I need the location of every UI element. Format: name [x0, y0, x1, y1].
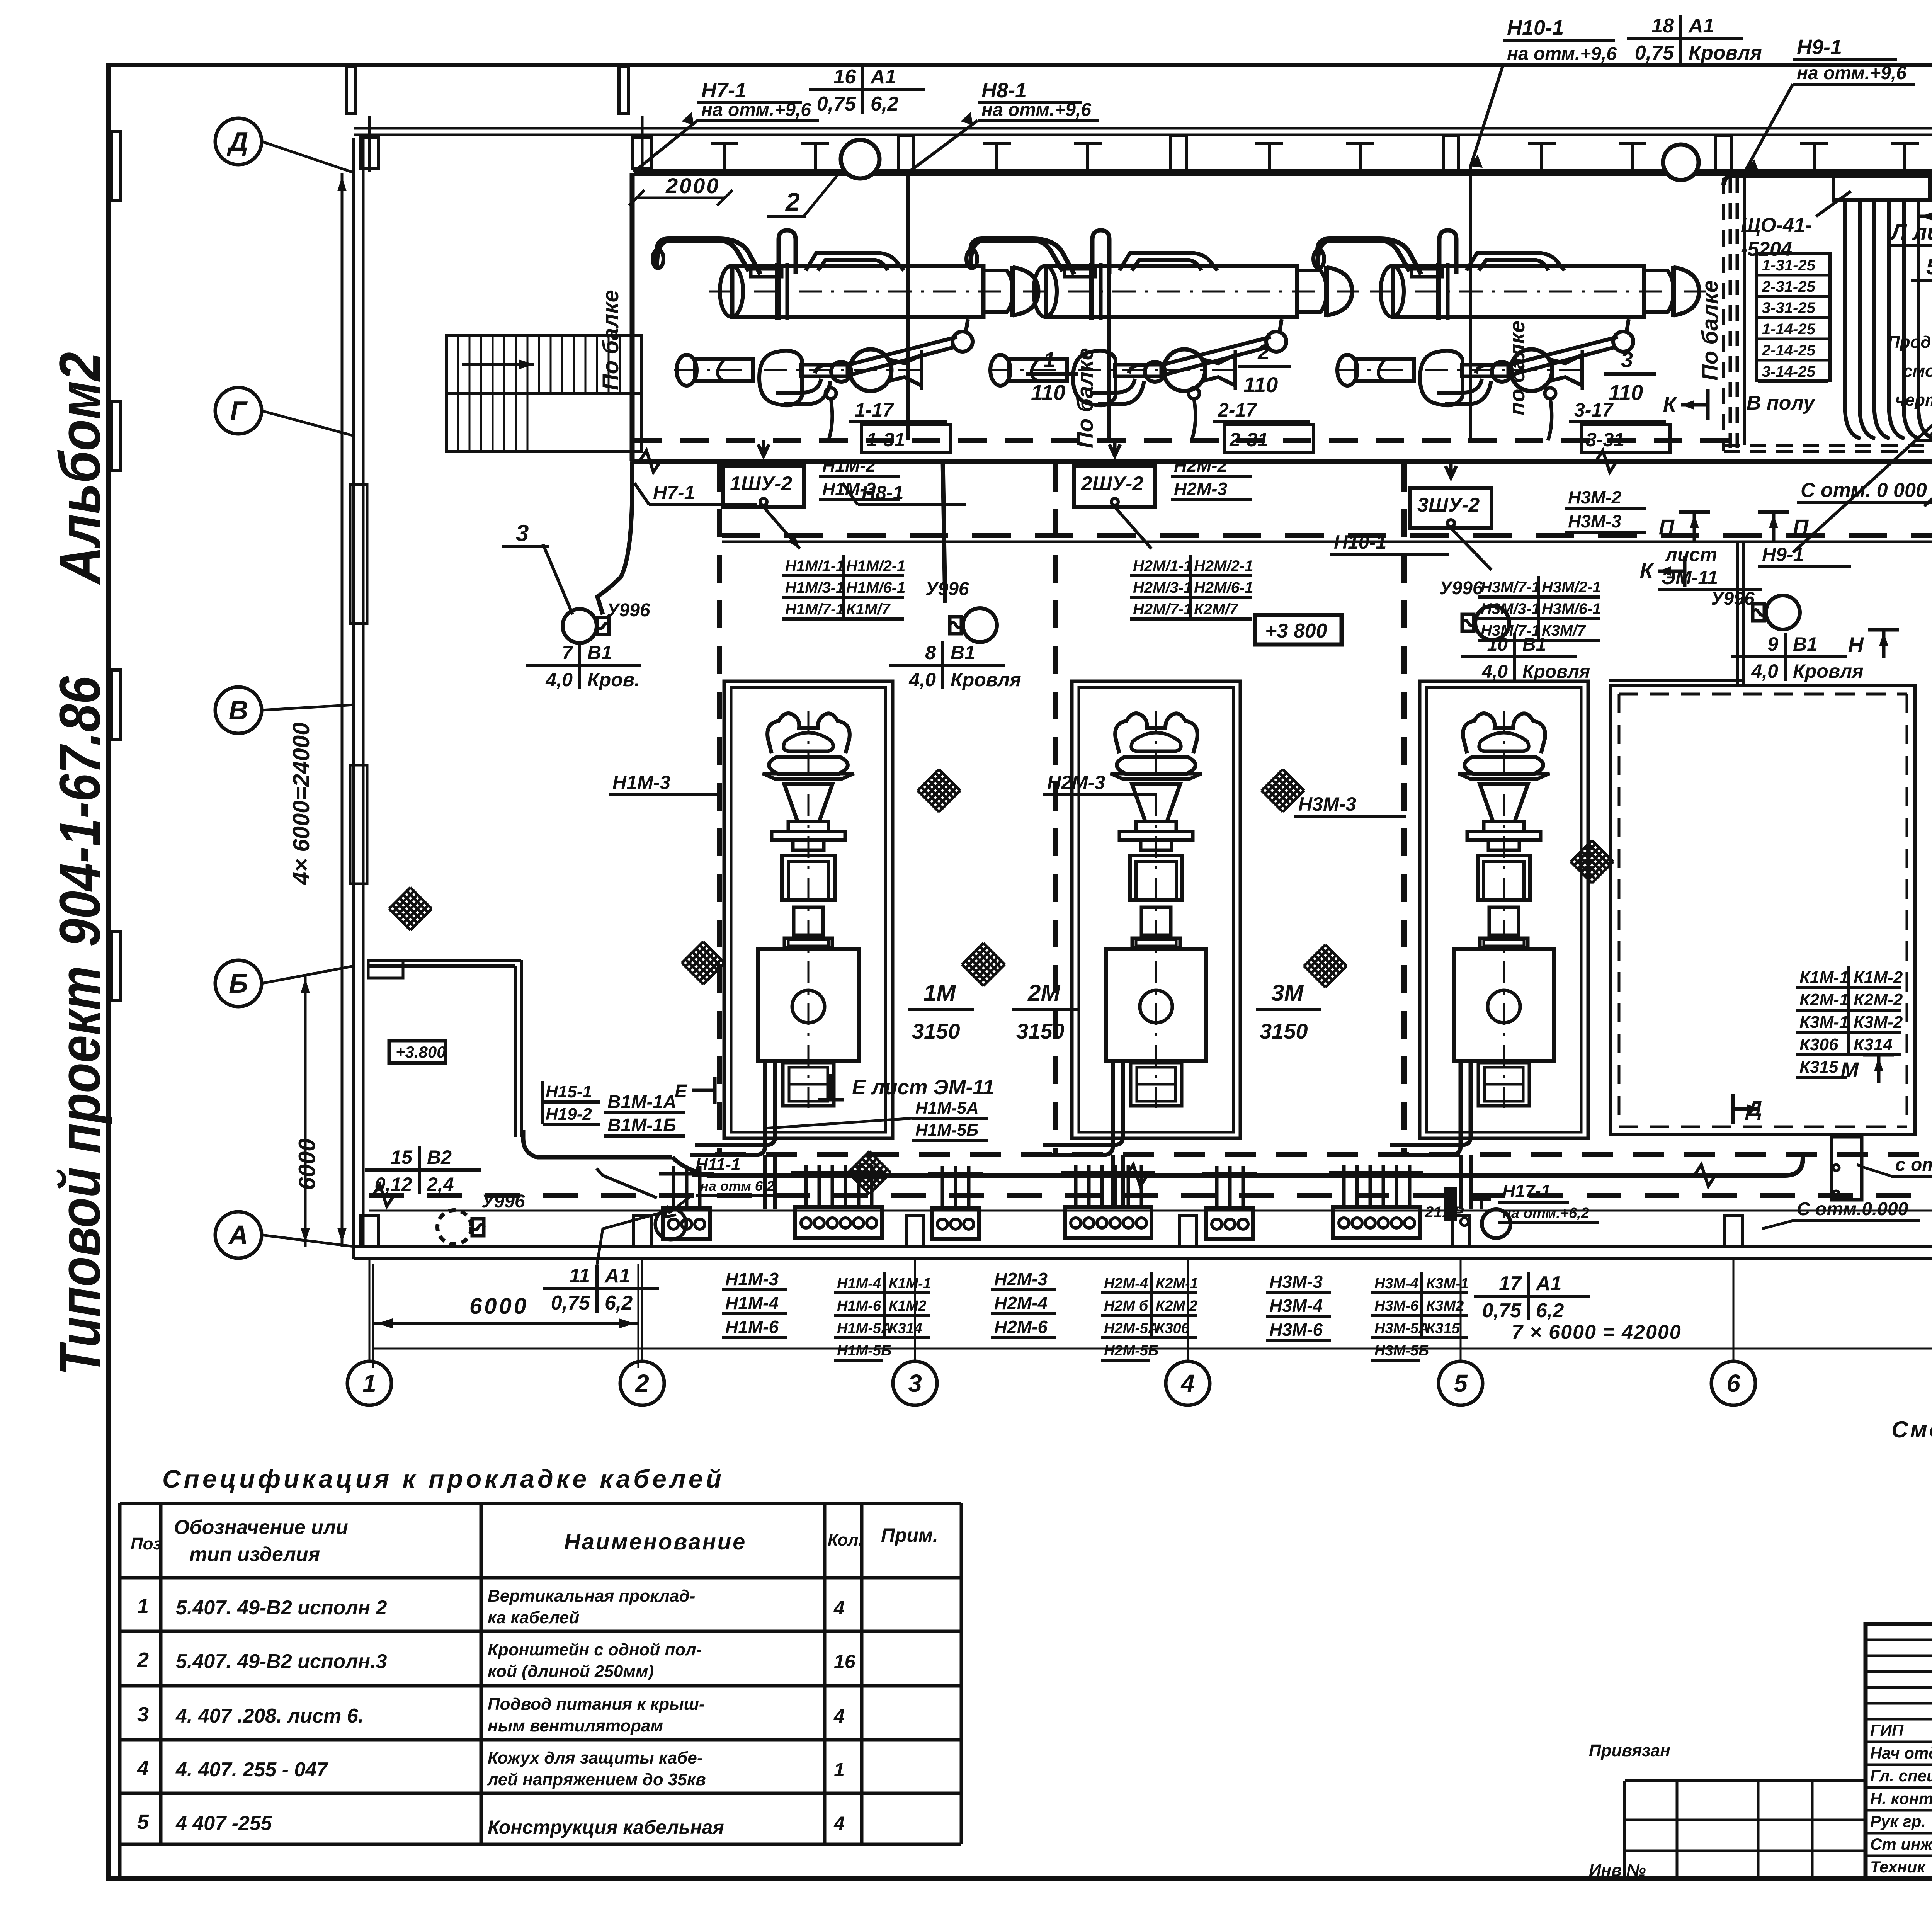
- svg-text:+3 800: +3 800: [1265, 620, 1327, 642]
- label 2/110: [1238, 340, 1291, 397]
- dim 7x6000=42000: [373, 1321, 1932, 1349]
- cable Н7-1 riser label: [634, 79, 819, 172]
- title block: [1866, 1624, 1932, 1879]
- svg-text:По балке: По балке: [1697, 280, 1723, 381]
- svg-text:Н2М-6: Н2М-6: [994, 1317, 1048, 1337]
- table Н3М/x-1: [1451, 528, 1601, 640]
- svg-text:6000: 6000: [294, 1139, 320, 1190]
- labels Н1М-2/Н1М-3: [819, 456, 900, 500]
- svg-text:4: 4: [137, 1757, 149, 1780]
- table Н2М/x-1: [1115, 507, 1253, 619]
- column axis 3: [893, 1259, 937, 1405]
- svg-text:К2М 2: К2М 2: [1156, 1298, 1197, 1314]
- svg-text:Гл. спец: Гл. спец: [1870, 1767, 1932, 1785]
- box 2ШУ-2: [1074, 440, 1155, 507]
- svg-text:Д: Д: [1745, 1096, 1762, 1121]
- svg-text:Подвод питания к крыш-: Подвод питания к крыш-: [488, 1695, 705, 1714]
- label 21ЯР: [1425, 1188, 1468, 1226]
- svg-text:Н1М-3: Н1М-3: [612, 772, 670, 793]
- svg-text:Ст инж.: Ст инж.: [1870, 1835, 1932, 1853]
- svg-text:1ШУ-2: 1ШУ-2: [730, 473, 792, 495]
- spare foundation bay 5-6: [1611, 686, 1915, 1135]
- svg-text:5: 5: [1454, 1369, 1468, 1397]
- svg-text:В полу: В полу: [1747, 392, 1816, 414]
- section mark М left: [1840, 1055, 1894, 1083]
- foundation cable drop: [1461, 1155, 1471, 1209]
- svg-text:4: 4: [1180, 1369, 1195, 1397]
- svg-text:2: 2: [1257, 340, 1270, 364]
- svg-text:1-17: 1-17: [855, 399, 894, 421]
- svg-text:Н1М-6: Н1М-6: [837, 1298, 881, 1314]
- svg-text:с отм. 0.000: с отм. 0.000: [1895, 1155, 1932, 1175]
- svg-text:4. 407. 255 - 047: 4. 407. 255 - 047: [175, 1759, 328, 1781]
- svg-text:5: 5: [137, 1810, 149, 1833]
- spec table: [120, 1503, 961, 1879]
- svg-text:В1М-1А: В1М-1А: [607, 1092, 677, 1112]
- foundation cable drop: [1113, 1155, 1123, 1209]
- svg-text:Н2М-2: Н2М-2: [1174, 456, 1227, 476]
- svg-text:17: 17: [1499, 1272, 1522, 1295]
- mark Е лист ЭМ-11: [818, 1074, 994, 1100]
- svg-text:К3М-1: К3М-1: [1426, 1276, 1469, 1292]
- label Н2М-3: [1043, 772, 1157, 794]
- svg-text:Нач отд.: Нач отд.: [1870, 1744, 1932, 1762]
- svg-text:1: 1: [1043, 347, 1055, 372]
- svg-text:1-31-25: 1-31-25: [1762, 257, 1816, 274]
- cable drop to tap 7: [597, 461, 632, 614]
- svg-text:4 407 -255: 4 407 -255: [175, 1812, 272, 1835]
- svg-text:Н15-1: Н15-1: [546, 1082, 592, 1101]
- svg-text:2-31-25: 2-31-25: [1762, 278, 1816, 295]
- svg-text:Н1М/3-1: Н1М/3-1: [785, 579, 844, 596]
- svg-text:Н2М-4: Н2М-4: [994, 1293, 1048, 1313]
- svg-text:3-14-25: 3-14-25: [1762, 363, 1816, 380]
- svg-text:2: 2: [635, 1369, 649, 1397]
- motor unit 1М: [690, 681, 893, 1155]
- svg-text:2ШУ-2: 2ШУ-2: [1081, 473, 1143, 495]
- connector group 1a (3): [597, 1166, 714, 1240]
- svg-text:А: А: [228, 1220, 248, 1250]
- svg-text:А1: А1: [870, 66, 896, 88]
- spec table title: [162, 1464, 724, 1493]
- compressor vessel unit 1: [653, 230, 1045, 405]
- svg-text:К3М-1: К3М-1: [1799, 1013, 1849, 1032]
- svg-text:тип изделия: тип изделия: [189, 1543, 320, 1566]
- cable Н10-1 riser label: [1470, 16, 1633, 168]
- wall shaft box right: [1832, 1137, 1862, 1200]
- svg-text:110: 110: [1609, 380, 1643, 405]
- svg-text:Н3М-6: Н3М-6: [1269, 1320, 1323, 1340]
- machine hall dashed boundary: [722, 536, 1932, 1144]
- labels В1М-1А/В1М-1Б: [604, 1092, 685, 1136]
- column axis 4: [1166, 1259, 1210, 1405]
- floor cable dashed run: [369, 1185, 1932, 1206]
- svg-text:Кров.: Кров.: [587, 669, 640, 690]
- grid axis Г: [215, 388, 354, 436]
- column axis 5: [1439, 1259, 1483, 1405]
- svg-text:Н10-1: Н10-1: [1334, 531, 1386, 553]
- svg-text:7 × 6000 = 42000: 7 × 6000 = 42000: [1512, 1321, 1682, 1344]
- svg-text:3М: 3М: [1271, 980, 1304, 1006]
- svg-text:3150: 3150: [1260, 1019, 1308, 1043]
- grid axis Б: [215, 960, 354, 1007]
- svg-text:2: 2: [785, 187, 800, 216]
- cable riser bundle ЩО-41-5204: [1833, 176, 1932, 439]
- svg-text:110: 110: [1243, 372, 1278, 397]
- title block left annex: [1589, 1741, 1866, 1880]
- connector group 1 (7): [791, 1165, 886, 1238]
- label С отм.0.000 upper: [1857, 1155, 1932, 1176]
- cable Н1М-3 vertical dashed: [717, 464, 722, 1155]
- cable Н3М-3 vertical dashed: [1401, 464, 1407, 1155]
- label Н3М-3: [1294, 793, 1406, 816]
- svg-text:В2: В2: [427, 1146, 452, 1168]
- svg-text:К1М/7: К1М/7: [846, 601, 891, 618]
- svg-text:Спецификация к прокладке: Спецификация к прокладке кабелей: [162, 1464, 724, 1493]
- svg-text:Н3М-4: Н3М-4: [1374, 1276, 1418, 1292]
- svg-text:К3М2: К3М2: [1426, 1298, 1464, 1314]
- column axis 1: [347, 1259, 391, 1405]
- svg-text:16: 16: [834, 1651, 856, 1672]
- svg-text:Н2М/2-1: Н2М/2-1: [1194, 558, 1253, 575]
- svg-text:Н17-1: Н17-1: [1502, 1181, 1551, 1201]
- svg-text:Инв №: Инв №: [1589, 1861, 1646, 1880]
- svg-text:Н11-1: Н11-1: [696, 1155, 741, 1174]
- svg-text:3: 3: [908, 1369, 922, 1397]
- svg-text:К3М/7: К3М/7: [1542, 622, 1586, 639]
- svg-text:С отм.0.000: С отм.0.000: [1797, 1199, 1908, 1219]
- slanted tags Н7-1..Н9-1: [1793, 298, 1932, 553]
- svg-text:по балке: по балке: [1505, 321, 1529, 415]
- svg-text:Смотреть совместно с листам: Смотреть совместно с листами ЭС-3, ЭС-5,…: [1891, 1417, 1932, 1442]
- margin stamp: album title: [47, 352, 112, 1376]
- служебное помещение dashed west wall: [1722, 178, 1725, 451]
- svg-text:Наименование: Наименование: [564, 1529, 747, 1554]
- roof fan 2: [767, 140, 879, 216]
- label stack Н3М-3..: [1266, 1272, 1331, 1340]
- svg-text:лей напряжением до 35кв: лей напряжением до 35кв: [487, 1770, 706, 1789]
- svg-text:4,0: 4,0: [908, 669, 936, 690]
- по балке dashed line right: [1697, 178, 1737, 448]
- west wall: [350, 138, 367, 1259]
- svg-text:Н1М-3: Н1М-3: [725, 1269, 779, 1289]
- svg-text:Н1М/6-1: Н1М/6-1: [846, 579, 905, 596]
- label Продолжение смотреть чертеж ЭС-5: [1888, 333, 1932, 464]
- corner cable bend col8 top: [1724, 175, 1932, 556]
- У996 tap 7: [502, 520, 650, 690]
- svg-text:Продолжение: Продолжение: [1888, 333, 1932, 352]
- label stack Н2М-4 К2М-1..: [1101, 1272, 1198, 1360]
- svg-text:К306: К306: [1799, 1035, 1838, 1054]
- mark Е left: [675, 1077, 715, 1104]
- svg-text:Н3М/3-1: Н3М/3-1: [1481, 600, 1540, 617]
- svg-text:Д: Д: [227, 126, 248, 156]
- label 1/110: [1026, 347, 1078, 405]
- svg-text:5.407. 49-В2 исполн 2: 5.407. 49-В2 исполн 2: [176, 1597, 387, 1619]
- svg-text:1-14-25: 1-14-25: [1762, 321, 1816, 338]
- frame axis marks: [111, 67, 628, 1001]
- motor unit 3М: [1386, 681, 1588, 1155]
- svg-text:Н3М/7-1: Н3М/7-1: [1481, 579, 1540, 596]
- svg-text:Кровля: Кровля: [1522, 662, 1590, 682]
- svg-text:6,2: 6,2: [871, 93, 898, 115]
- svg-text:К2М-1: К2М-1: [1156, 1276, 1198, 1292]
- svg-text:К1М2: К1М2: [889, 1298, 926, 1314]
- svg-text:Типовой проект: Типовой проект: [47, 966, 112, 1376]
- label Н11-1 на отм 6.2: [665, 1155, 788, 1217]
- svg-text:4× 6000=24000: 4× 6000=24000: [288, 723, 314, 885]
- svg-text:Н2М б: Н2М б: [1104, 1298, 1149, 1314]
- svg-text:8: 8: [925, 642, 936, 663]
- dimension 6000 left: [294, 975, 320, 1247]
- svg-text:ка кабелей: ка кабелей: [488, 1608, 579, 1627]
- south wall row А: [354, 1247, 1932, 1259]
- svg-text:Н1М-5А: Н1М-5А: [915, 1099, 979, 1117]
- svg-text:2-14-25: 2-14-25: [1762, 342, 1816, 359]
- connector group 2a (3): [928, 1166, 983, 1239]
- label 3М/3150: [1256, 980, 1321, 1043]
- hall south dashed boundary: [715, 1152, 1932, 1157]
- svg-text:В1: В1: [951, 642, 975, 663]
- label ЩО-41-5204: [1741, 191, 1851, 260]
- sensor 1-17/1-31: [825, 388, 951, 452]
- svg-text:Н2М-3: Н2М-3: [1174, 479, 1227, 499]
- svg-text:0,75: 0,75: [817, 93, 856, 115]
- floor cable heavy run: [523, 1130, 1803, 1186]
- svg-text:4,0: 4,0: [1751, 660, 1778, 682]
- section mark Д low: [1733, 1094, 1762, 1124]
- svg-text:16: 16: [833, 66, 856, 88]
- svg-text:на отм.+9,6: на отм.+9,6: [1507, 44, 1617, 64]
- beam cable bay3: [906, 173, 910, 440]
- svg-text:Н3М/7-1: Н3М/7-1: [1481, 622, 1540, 639]
- hatch patch: [1571, 840, 1613, 883]
- svg-text:4,0: 4,0: [1481, 662, 1508, 682]
- svg-text:Н3М-6: Н3М-6: [1374, 1298, 1419, 1314]
- svg-text:У996: У996: [925, 579, 969, 599]
- svg-text:5.407. 49-В2 исполн.3: 5.407. 49-В2 исполн.3: [176, 1650, 387, 1673]
- svg-text:4: 4: [833, 1705, 845, 1727]
- mark П лист ЭМ-11: [1658, 512, 1762, 590]
- svg-text:на отм.+6,2: на отм.+6,2: [1502, 1205, 1589, 1221]
- svg-text:М: М: [1840, 1058, 1859, 1082]
- svg-text:Н2М/1-1: Н2М/1-1: [1133, 558, 1192, 575]
- label С отм 0.000 top area: [1797, 479, 1932, 502]
- cable drop to tap 8: [943, 461, 945, 603]
- svg-text:По балке: По балке: [1073, 348, 1098, 448]
- label stack Н1М-3.. col2: [722, 1269, 787, 1338]
- svg-text:3ШУ-2: 3ШУ-2: [1417, 494, 1480, 516]
- svg-text:3150: 3150: [912, 1019, 960, 1043]
- svg-text:Н3М-3: Н3М-3: [1568, 511, 1621, 531]
- svg-text:У996: У996: [607, 600, 650, 621]
- dim 6000 bottom: [373, 1264, 638, 1368]
- svg-text:Н1М-4: Н1М-4: [837, 1276, 881, 1292]
- по балке text unit2: [1073, 247, 1109, 448]
- dimension 4x6000=24000: [288, 173, 347, 1247]
- labels Н1М-5А/Н1М-5Б: [765, 1099, 988, 1140]
- svg-text:К315: К315: [1426, 1320, 1460, 1337]
- svg-text:Н2М-4: Н2М-4: [1104, 1276, 1148, 1292]
- svg-text:Г: Г: [230, 396, 248, 426]
- svg-text:Е: Е: [675, 1081, 688, 1102]
- svg-text:4: 4: [833, 1813, 845, 1834]
- label Н17-1 на отм+6,2: [1473, 1181, 1599, 1238]
- svg-text:В: В: [229, 695, 248, 725]
- svg-text:Н: Н: [1848, 633, 1864, 657]
- hatch patch: [682, 942, 724, 984]
- svg-text:1: 1: [137, 1595, 149, 1618]
- svg-text:Н1М-5Б: Н1М-5Б: [915, 1121, 978, 1139]
- note Смотреть совместно: [1891, 1417, 1932, 1442]
- svg-text:К1М-1: К1М-1: [1799, 968, 1849, 987]
- floor trench edge line: [369, 1210, 1932, 1212]
- floor duct table 1-31-25: [1757, 253, 1830, 381]
- svg-text:кой (длиной 250мм): кой (длиной 250мм): [488, 1662, 654, 1681]
- svg-text:П: П: [1793, 515, 1809, 539]
- north wall beam ticks: [360, 116, 1932, 176]
- cable Н9-1 riser label: [1746, 36, 1915, 172]
- svg-text:Н9-1: Н9-1: [1797, 36, 1842, 59]
- svg-text:Кронштейн с одной пол-: Кронштейн с одной пол-: [488, 1640, 702, 1659]
- svg-text:К1М-2: К1М-2: [1854, 968, 1903, 987]
- svg-text:на отм.+9,6: на отм.+9,6: [1797, 63, 1906, 83]
- svg-text:Кровля: Кровля: [1689, 42, 1762, 64]
- cable tray row Г dashed: [634, 438, 1731, 443]
- svg-text:+3.800: +3.800: [396, 1043, 446, 1061]
- svg-text:Техник: Техник: [1870, 1858, 1926, 1876]
- svg-text:Поз: Поз: [131, 1534, 162, 1553]
- svg-text:смотреть: смотреть: [1903, 362, 1932, 381]
- svg-text:7: 7: [562, 642, 573, 663]
- hatch patch: [1304, 945, 1347, 987]
- label 1М/3150: [908, 980, 974, 1043]
- svg-text:Н2М/6-1: Н2М/6-1: [1194, 579, 1253, 596]
- svg-text:А1: А1: [604, 1265, 630, 1287]
- svg-text:Кол.: Кол.: [828, 1531, 863, 1549]
- compressor vessel unit 2: [966, 230, 1359, 405]
- svg-text:6: 6: [1726, 1369, 1740, 1397]
- svg-text:К: К: [1640, 558, 1655, 583]
- svg-text:Н1М-4: Н1М-4: [725, 1293, 779, 1313]
- svg-text:Н2М-3: Н2М-3: [1047, 772, 1105, 793]
- svg-text:Л лист: Л лист: [1890, 219, 1932, 245]
- по балке text unit3: [1471, 166, 1529, 440]
- bottom-left room partition: [368, 960, 521, 1137]
- labels Н15-1/Н19-2: [543, 1081, 600, 1124]
- west riser cable по балке: [598, 173, 632, 461]
- svg-text:В1: В1: [1793, 633, 1818, 655]
- svg-text:Н. контр: Н. контр: [1870, 1789, 1932, 1808]
- svg-text:С отм. 0 000: С отм. 0 000: [1801, 479, 1927, 502]
- svg-text:ным вентиляторам: ным вентиляторам: [488, 1716, 663, 1735]
- svg-text:А1: А1: [1688, 15, 1714, 37]
- svg-text:К315: К315: [1799, 1058, 1838, 1077]
- У996 tap 10: [1439, 578, 1590, 682]
- hatch patch: [848, 1151, 891, 1194]
- svg-text:К314: К314: [889, 1320, 922, 1337]
- svg-text:Б: Б: [229, 968, 248, 998]
- svg-text:2000: 2000: [665, 173, 720, 198]
- svg-text:Н1М/2-1: Н1М/2-1: [846, 558, 905, 575]
- svg-text:Н3М-5Б: Н3М-5Б: [1374, 1343, 1429, 1359]
- svg-text:К2М-1: К2М-1: [1799, 990, 1849, 1009]
- svg-text:на отм.+9,6: на отм.+9,6: [981, 100, 1091, 120]
- staircase west: [446, 335, 641, 451]
- svg-text:Н3М-2: Н3М-2: [1568, 487, 1621, 507]
- svg-text:11: 11: [569, 1265, 590, 1287]
- svg-text:9: 9: [1767, 633, 1778, 655]
- svg-text:ЩО-41-: ЩО-41-: [1741, 214, 1812, 236]
- svg-text:Е лист ЭМ-11: Е лист ЭМ-11: [852, 1076, 994, 1099]
- svg-text:1: 1: [362, 1369, 376, 1397]
- connector group 3 (7): [1329, 1165, 1423, 1238]
- svg-text:Н3М-3: Н3М-3: [1298, 793, 1356, 815]
- svg-text:Н1М/1-1: Н1М/1-1: [785, 558, 844, 575]
- svg-text:Н1М-5Б: Н1М-5Б: [837, 1343, 891, 1359]
- sensor 2-17/2-31: [1189, 388, 1314, 452]
- svg-text:3-31-25: 3-31-25: [1762, 299, 1816, 316]
- column axis 2: [620, 1259, 664, 1405]
- section mark К upper: [1663, 389, 1708, 420]
- label stack Н3М-4 К3М-1..: [1371, 1272, 1469, 1360]
- foundation cable drop: [765, 1155, 775, 1209]
- svg-text:К3М-2: К3М-2: [1854, 1013, 1903, 1032]
- svg-text:А1: А1: [1535, 1272, 1561, 1295]
- hatch patch: [918, 769, 960, 812]
- svg-text:Н1М/7-1: Н1М/7-1: [785, 601, 844, 618]
- label 17/А1 0,75/6,2: [1474, 1272, 1590, 1322]
- label 2М/3150: [1012, 980, 1078, 1043]
- connector group 2 (7): [1061, 1165, 1155, 1238]
- sensor 3-17/3-31: [1545, 388, 1670, 452]
- svg-text:3-17: 3-17: [1574, 399, 1614, 421]
- svg-text:Н3М-3: Н3М-3: [1269, 1272, 1323, 1292]
- grid axis В: [215, 687, 354, 733]
- svg-text:Н19-2: Н19-2: [546, 1105, 592, 1124]
- label 11/А1 0,75/6,2: [543, 1207, 680, 1314]
- svg-text:0,75: 0,75: [1482, 1299, 1522, 1322]
- svg-text:Н3М-4: Н3М-4: [1269, 1296, 1323, 1316]
- svg-text:Н2М-3: Н2М-3: [994, 1269, 1048, 1289]
- box 1ШУ-2: [723, 440, 804, 507]
- labels Н2М-2/Н2М-3: [1171, 456, 1252, 500]
- labels Н3М-2/Н3М-3: [1565, 487, 1646, 532]
- svg-text:Прим.: Прим.: [881, 1524, 938, 1546]
- svg-text:15: 15: [391, 1146, 413, 1168]
- svg-text:0,75: 0,75: [551, 1292, 590, 1314]
- beam cable col6: [1743, 173, 1746, 445]
- connector group 3a (3): [1202, 1166, 1257, 1239]
- svg-text:чертеж ЭС-5: чертеж ЭС-5: [1895, 391, 1932, 410]
- svg-text:Конструкция кабельная: Конструкция кабельная: [488, 1816, 724, 1838]
- svg-text:Кожух для защиты кабе-: Кожух для защиты кабе-: [488, 1748, 703, 1767]
- svg-text:3: 3: [137, 1703, 149, 1726]
- svg-text:5: 5: [1926, 254, 1932, 279]
- section mark Н: [1848, 630, 1899, 658]
- cable run row Г heavy: [634, 451, 1932, 472]
- column axis 6: [1711, 1259, 1755, 1405]
- svg-text:К314: К314: [1854, 1035, 1892, 1054]
- dimension 2000: [629, 173, 733, 206]
- У996 tap 8: [889, 579, 1021, 690]
- label stack Н1М-4 К1М-1..: [834, 1272, 931, 1360]
- У996 tap 9: [1711, 588, 1864, 682]
- partition wall notch: [1609, 541, 1743, 686]
- svg-text:Обозначение или: Обозначение или: [174, 1516, 348, 1539]
- svg-text:Н1М-3: Н1М-3: [822, 479, 876, 499]
- compressor vessel unit 3: [1313, 230, 1706, 405]
